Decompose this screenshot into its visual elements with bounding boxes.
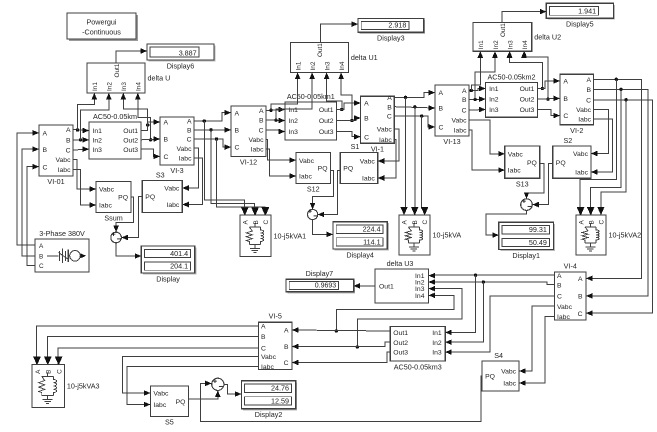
- svg-text:Out1: Out1: [317, 43, 324, 57]
- svg-text:In2: In2: [93, 137, 103, 144]
- svg-text:Iabc: Iabc: [578, 117, 591, 124]
- VI measurement block VI-4: [555, 262, 593, 322]
- svg-text:1.941: 1.941: [578, 7, 596, 16]
- svg-text:A: A: [261, 324, 266, 331]
- svg-text:VI-5: VI-5: [269, 312, 282, 321]
- svg-text:C: C: [284, 360, 289, 367]
- svg-text:Out2: Out2: [393, 340, 408, 347]
- svg-text:PQ: PQ: [118, 195, 128, 202]
- wire VI-12 C to AC50-0.05km1 In3: [266, 129, 285, 135]
- display block Display: [141, 246, 196, 283]
- svg-text:C: C: [56, 369, 63, 374]
- subsystem block delta U1: [290, 43, 377, 80]
- svg-text:10-j5kVA1: 10-j5kVA1: [274, 231, 307, 240]
- svg-text:PQ: PQ: [527, 160, 537, 167]
- svg-text:PQ: PQ: [343, 166, 353, 173]
- VI measurement block VI-01: [33, 125, 74, 186]
- wire node B to 10-j5kVA1 B: [211, 130, 258, 215]
- wire VI-13 C to AC50-0.05km2 In3: [469, 107, 486, 113]
- wire delta U3 In2 arrowhead: [429, 279, 436, 285]
- svg-text:2.918: 2.918: [388, 21, 406, 30]
- wire S12 PQ to Sum3: [310, 171, 334, 210]
- svg-text:C: C: [422, 220, 429, 225]
- svg-text:Iabc: Iabc: [575, 170, 588, 177]
- svg-text:Out2: Out2: [319, 118, 334, 125]
- wire S1 PQ to Sum3: [318, 171, 341, 218]
- svg-text:Display7: Display7: [306, 269, 334, 278]
- svg-text:In2: In2: [107, 82, 114, 91]
- wire node A to 10-j5kVA2 A: [577, 79, 617, 215]
- wire VI-12 A to AC50-0.05km1 In1: [266, 107, 285, 113]
- svg-text:Out1: Out1: [393, 330, 408, 337]
- svg-text:204.1: 204.1: [170, 262, 188, 271]
- svg-text:In1: In1: [289, 107, 299, 114]
- wire VI-5 C to 10-j5kVA3 C: [55, 348, 259, 364]
- svg-text:VI-4: VI-4: [564, 262, 577, 271]
- wire VI-01 B to AC50-0.05km In2: [73, 137, 89, 143]
- wire node B to 10-j5kVA B: [411, 107, 418, 215]
- svg-text:AC50-0.05km: AC50-0.05km: [93, 112, 137, 121]
- svg-text:10-j5kVA2: 10-j5kVA2: [609, 231, 642, 240]
- svg-text:Display: Display: [156, 274, 180, 283]
- wire AC50-0.05km2 Out1 to VI-2 A: [537, 78, 560, 88]
- svg-text:A: A: [563, 79, 568, 86]
- svg-text:Out3: Out3: [319, 129, 334, 136]
- svg-text:3-Phase 380V: 3-Phase 380V: [39, 229, 85, 238]
- wire VI-5 B to 10-j5kVA3 B: [44, 337, 259, 365]
- svg-text:In4: In4: [136, 82, 143, 91]
- wire Ssum PQ to Sum1: [113, 197, 133, 232]
- display block Display5: [546, 3, 615, 28]
- svg-text:B: B: [588, 220, 595, 224]
- svg-text:Vabc: Vabc: [99, 187, 115, 194]
- svg-text:A: A: [387, 95, 392, 102]
- svg-text:Iabc: Iabc: [251, 147, 264, 154]
- wire node junction to delta U In3: [121, 93, 150, 127]
- svg-text:C: C: [557, 294, 562, 301]
- svg-text:−: −: [527, 202, 532, 211]
- svg-text:Iabc: Iabc: [557, 314, 570, 321]
- svg-text:C: C: [563, 113, 568, 120]
- svg-text:Iabc: Iabc: [261, 364, 274, 371]
- svg-text:In3: In3: [508, 40, 515, 49]
- svg-text:Iabc: Iabc: [58, 167, 71, 174]
- svg-text:C: C: [598, 220, 605, 225]
- svg-text:A: A: [462, 88, 467, 95]
- wire node junction to delta U1 In3: [324, 73, 344, 112]
- svg-text:A: A: [578, 276, 583, 283]
- transmission line block AC50-0.05km1: [279, 92, 337, 140]
- svg-text:S3: S3: [156, 170, 165, 179]
- svg-text:S2: S2: [564, 136, 573, 145]
- svg-text:B: B: [259, 118, 264, 125]
- svg-text:401.4: 401.4: [170, 249, 188, 258]
- svg-text:B: B: [187, 128, 192, 135]
- wire VI-5 Vabc to S5 Vabc: [123, 357, 259, 396]
- svg-text:Vabc: Vabc: [501, 369, 517, 376]
- wire source C to VI-01 C: [27, 164, 39, 266]
- svg-text:Iabc: Iabc: [179, 156, 192, 163]
- wire VI-12 Iabc to S12 Iabc: [266, 149, 296, 179]
- svg-text:B: B: [164, 137, 169, 144]
- svg-text:VI-13: VI-13: [443, 137, 460, 146]
- wire delta U3 In1 node to VI-4 A: [434, 274, 555, 277]
- svg-text:Vabc: Vabc: [56, 157, 72, 164]
- svg-text:224.4: 224.4: [363, 225, 381, 234]
- three-phase RL load block 10-j5kVA: [399, 207, 461, 255]
- display block Display7: [286, 269, 360, 293]
- svg-text:Vabc: Vabc: [153, 391, 169, 398]
- svg-text:VI-12: VI-12: [240, 158, 257, 167]
- svg-text:Iabc: Iabc: [299, 174, 312, 181]
- svg-text:PQ: PQ: [556, 160, 566, 167]
- svg-text:Display6: Display6: [167, 61, 195, 70]
- wire S3 PQ to Sum1: [121, 197, 142, 241]
- wire node C to 10-j5kVA2 C: [597, 100, 626, 215]
- wire AC50-0.05km1 Out2 to VI-1 B: [337, 115, 361, 121]
- svg-text:B: B: [587, 87, 592, 94]
- wire VI-4 Iabc to S4 Iabc: [519, 317, 554, 386]
- wire VI-2 B to VI-4 B: [586, 88, 648, 299]
- display block Display3: [358, 19, 425, 43]
- wire Sum2 to Display2: [224, 384, 242, 397]
- three-phase RL load block 10-j5kVA2: [576, 207, 641, 255]
- svg-text:50.49: 50.49: [529, 238, 547, 247]
- wire VI-5 A to 10-j5kVA3 A: [33, 326, 258, 364]
- svg-text:PQ: PQ: [145, 194, 155, 201]
- power measurement block S13: [498, 146, 540, 189]
- svg-text:S12: S12: [307, 185, 320, 194]
- wire VI-12 B to AC50-0.05km1 In2: [266, 118, 285, 124]
- svg-text:C: C: [462, 108, 467, 115]
- sum block Sum1: [111, 230, 122, 244]
- sum block Sum3: [308, 207, 319, 221]
- power measurement block S5: [144, 386, 189, 427]
- wire AC50-0.05km3 Out2 to VI-5 B: [292, 342, 390, 349]
- svg-text:VI-3: VI-3: [170, 166, 183, 175]
- svg-text:Vabc: Vabc: [557, 304, 573, 311]
- svg-text:B: B: [66, 138, 71, 145]
- wire node junction to delta U In2: [81, 93, 112, 140]
- svg-text:Vabc: Vabc: [377, 126, 393, 133]
- svg-text:Out3: Out3: [123, 147, 138, 154]
- svg-text:PQ: PQ: [485, 374, 495, 381]
- svg-text:In3: In3: [432, 350, 442, 357]
- svg-text:Out1: Out1: [500, 23, 507, 37]
- svg-text:In3: In3: [93, 147, 103, 154]
- display block Display4: [333, 222, 389, 260]
- svg-text:Display5: Display5: [566, 20, 594, 29]
- transmission line block AC50-0.05km2: [479, 72, 537, 117]
- wire VI-01 A to AC50-0.05km In1: [73, 128, 89, 134]
- wire node junction to delta U In4: [135, 93, 152, 142]
- svg-text:-Continuous: -Continuous: [82, 28, 121, 37]
- wire VI-3 B to VI-12 B: [194, 127, 231, 133]
- wire AC50-0.05km Out3 to VI-3 C: [141, 149, 160, 159]
- wire AC50-0.05km Out1 to VI-3 A: [141, 119, 160, 130]
- svg-text:Vabc: Vabc: [576, 107, 592, 114]
- svg-text:A: A: [243, 220, 250, 225]
- svg-text:B: B: [235, 127, 240, 134]
- svg-text:C: C: [261, 346, 266, 353]
- svg-text:B: B: [284, 344, 289, 351]
- svg-text:In3: In3: [324, 61, 331, 70]
- svg-text:B: B: [563, 96, 568, 103]
- wire node A to 10-j5kVA A: [400, 97, 407, 215]
- display block Display1: [499, 222, 555, 259]
- svg-text:A: A: [164, 120, 169, 127]
- three-phase RL load block 10-j5kVA3: [32, 356, 100, 407]
- svg-text:C: C: [259, 127, 264, 134]
- svg-text:AC50-0.05km3: AC50-0.05km3: [394, 362, 442, 371]
- subsystem block delta U: [87, 63, 170, 100]
- svg-text:delta U: delta U: [148, 74, 171, 83]
- svg-text:delta U2: delta U2: [534, 32, 561, 41]
- wire VI-1 Iabc to S1 Iabc: [378, 139, 396, 181]
- svg-text:B: B: [46, 370, 53, 374]
- wire delta U3 Out1 to Display7: [354, 283, 375, 289]
- svg-text:VI-01: VI-01: [47, 177, 64, 186]
- VI measurement block VI-2: [553, 74, 593, 135]
- wire Sum4 to Display1: [486, 210, 527, 238]
- svg-text:In1: In1: [489, 86, 499, 93]
- wire VI-01 C to AC50-0.05km In3: [73, 146, 89, 152]
- svg-text:Iabc: Iabc: [99, 203, 112, 210]
- wire node A to 10-j5kVA1 A: [204, 121, 248, 215]
- svg-text:A: A: [43, 130, 48, 137]
- svg-text:Out3: Out3: [520, 107, 535, 114]
- svg-text:99.31: 99.31: [529, 225, 547, 234]
- svg-text:C: C: [235, 145, 240, 152]
- VI measurement block VI-1: [354, 95, 394, 153]
- powergui block: [67, 13, 138, 41]
- svg-text:10-j5kVA3: 10-j5kVA3: [67, 382, 100, 391]
- sum block Sum2: [212, 377, 224, 391]
- svg-text:delta U1: delta U1: [351, 53, 378, 62]
- svg-text:B: B: [253, 220, 260, 224]
- svg-text:In2: In2: [310, 61, 317, 70]
- svg-text:C: C: [39, 263, 44, 270]
- power measurement block S1: [340, 142, 384, 183]
- svg-text:24.76: 24.76: [271, 384, 289, 393]
- svg-text:A: A: [557, 273, 562, 280]
- svg-text:In3: In3: [489, 107, 499, 114]
- svg-text:Vabc: Vabc: [249, 137, 265, 144]
- svg-text:C: C: [586, 97, 591, 104]
- svg-text:In1: In1: [93, 128, 103, 135]
- wire node junction to delta U2 In1: [471, 52, 483, 91]
- wire node C to 10-j5kVA C: [421, 116, 428, 215]
- svg-text:−: −: [117, 235, 122, 244]
- svg-text:B: B: [364, 116, 369, 123]
- wire VI-2 Vabc to S2 Vabc: [591, 110, 608, 157]
- svg-text:A: A: [578, 220, 585, 225]
- svg-text:Out1: Out1: [319, 107, 334, 114]
- wire VI-3 C to VI-12 C: [194, 137, 231, 150]
- wire VI-01 Vabc to Ssum Vabc: [73, 160, 96, 192]
- svg-text:AC50-0.05km1: AC50-0.05km1: [287, 92, 335, 101]
- wire node junction to delta U1 In1: [271, 73, 301, 111]
- wire node C to 10-j5kVA1 C: [217, 139, 269, 215]
- wire VI-4 C to AC50-0.05km3 In3: [445, 296, 554, 355]
- svg-text:C: C: [66, 148, 71, 155]
- wire AC50-0.05km2 Out2 to VI-2 B: [537, 96, 560, 102]
- wire AC50-0.05km1 Out3 to VI-1 C: [337, 132, 361, 140]
- svg-text:In2: In2: [289, 118, 299, 125]
- wire VI-1 B to VI-13 B: [394, 105, 435, 111]
- svg-text:B: B: [261, 334, 266, 341]
- wire delta U3 In2 node to VI-4 B: [429, 280, 555, 284]
- power measurement block Ssum: [90, 182, 132, 223]
- wire AC50-0.05km Out2 to VI-3 B: [141, 136, 160, 142]
- svg-text:Vabc: Vabc: [177, 146, 193, 153]
- svg-text:Out2: Out2: [520, 97, 535, 104]
- VI measurement block VI-5: [259, 312, 299, 371]
- svg-text:A: A: [35, 369, 42, 374]
- wire node junction to delta U2 In2: [475, 52, 498, 100]
- svg-text:12.59: 12.59: [271, 396, 289, 405]
- svg-text:B: B: [578, 294, 583, 301]
- svg-text:Out3: Out3: [393, 350, 408, 357]
- svg-text:C: C: [164, 154, 169, 161]
- svg-text:AC50-0.05km2: AC50-0.05km2: [488, 72, 536, 81]
- svg-text:A: A: [587, 77, 592, 84]
- three-phase source 3-Phase 380V: [35, 229, 89, 272]
- three-phase RL load block 10-j5kVA1: [240, 207, 306, 257]
- svg-text:In3: In3: [121, 82, 128, 91]
- svg-text:Display1: Display1: [512, 251, 540, 260]
- svg-text:A: A: [66, 127, 71, 134]
- svg-text:0.9693: 0.9693: [315, 283, 337, 290]
- wire node junction to delta U3 In3: [356, 286, 462, 349]
- svg-text:C: C: [387, 114, 392, 121]
- svg-text:In4: In4: [415, 293, 425, 300]
- wire VI-1 C to VI-13 C: [394, 114, 435, 129]
- wire node junction to delta U1 In2: [276, 73, 315, 121]
- svg-text:C: C: [263, 220, 270, 225]
- wire Sum3 to Display4: [313, 220, 333, 238]
- wire VI-5 Iabc to S5 Iabc: [127, 367, 259, 408]
- svg-text:B: B: [43, 147, 48, 154]
- wire source A to VI-01 A: [17, 130, 39, 245]
- svg-text:In2: In2: [432, 340, 442, 347]
- subsystem block delta U2: [473, 23, 561, 58]
- svg-text:In1: In1: [295, 61, 302, 70]
- svg-text:A: A: [187, 119, 192, 126]
- svg-text:C: C: [439, 125, 444, 132]
- svg-text:VI-2: VI-2: [570, 126, 583, 135]
- svg-text:114.1: 114.1: [363, 237, 380, 246]
- wire AC50-0.05km3 Out3 to VI-5 C: [292, 352, 390, 365]
- wire S5 PQ to Sum2: [188, 390, 220, 399]
- svg-text:Out1: Out1: [520, 86, 535, 93]
- wire S2 PQ to Sum4: [532, 164, 553, 208]
- svg-text:In3: In3: [289, 129, 299, 136]
- svg-text:Out1: Out1: [379, 284, 394, 291]
- svg-text:Vabc: Vabc: [508, 151, 524, 158]
- wire node junction to delta U In1: [78, 93, 98, 130]
- svg-text:A: A: [259, 108, 264, 115]
- wire VI-2 Iabc to S2 Iabc: [591, 119, 613, 175]
- sum block Sum4: [521, 197, 533, 211]
- svg-text:B: B: [412, 220, 419, 224]
- transmission line block AC50-0.05km: [83, 112, 142, 159]
- svg-text:+: +: [213, 377, 218, 386]
- wire node junction to AC50-0.05km3 In1: [445, 275, 475, 335]
- wire node junction to delta U2 In4: [521, 52, 550, 101]
- svg-text:Out2: Out2: [123, 137, 138, 144]
- svg-text:S4: S4: [494, 351, 503, 360]
- svg-text:S1: S1: [351, 142, 360, 151]
- svg-text:Vabc: Vabc: [573, 151, 589, 158]
- wire VI-3 Iabc to S3 Iabc: [182, 158, 202, 207]
- svg-text:S13: S13: [516, 180, 529, 189]
- svg-text:Display3: Display3: [377, 34, 405, 43]
- svg-text:B: B: [387, 104, 392, 111]
- svg-text:Vabc: Vabc: [452, 117, 468, 124]
- svg-text:A: A: [439, 90, 444, 97]
- svg-text:Iabc: Iabc: [153, 402, 166, 409]
- svg-text:In2: In2: [489, 97, 499, 104]
- wire delta U1 Out1 to Display3: [321, 21, 359, 42]
- VI measurement block VI-3: [154, 117, 195, 175]
- display block Display6: [147, 44, 216, 70]
- svg-text:−: −: [313, 212, 318, 221]
- svg-text:B: B: [557, 282, 562, 289]
- wire VI-2 C to VI-4 C: [586, 98, 653, 316]
- svg-text:B: B: [462, 97, 467, 104]
- svg-text:In4: In4: [339, 61, 346, 70]
- svg-text:Iabc: Iabc: [503, 381, 516, 388]
- svg-text:In2: In2: [493, 40, 500, 49]
- power measurement block S12: [290, 152, 331, 193]
- svg-text:In4: In4: [522, 40, 529, 49]
- VI measurement block VI-13: [429, 85, 470, 146]
- svg-text:Vabc: Vabc: [164, 186, 180, 193]
- svg-text:Vabc: Vabc: [299, 158, 315, 165]
- wire VI-13 Iabc to S13 Iabc: [469, 130, 505, 173]
- wire VI-1 A to VI-13 A: [394, 90, 435, 99]
- subsystem block delta U3: [375, 259, 435, 303]
- svg-text:Iabc: Iabc: [379, 137, 392, 144]
- svg-text:B: B: [439, 106, 444, 113]
- svg-text:10-j5kVA: 10-j5kVA: [433, 231, 462, 240]
- VI measurement block VI-12: [225, 106, 267, 167]
- wire VI-01 Iabc to Ssum Iabc: [73, 170, 96, 208]
- transmission line block AC50-0.05km3: [390, 327, 451, 372]
- wire delta U3 In1 arrowhead: [429, 273, 436, 279]
- svg-text:−: −: [218, 382, 223, 391]
- power measurement block S2: [553, 136, 598, 179]
- svg-text:A: A: [235, 110, 240, 117]
- svg-text:C: C: [43, 164, 48, 171]
- svg-text:C: C: [364, 134, 369, 141]
- svg-text:Iabc: Iabc: [454, 128, 467, 135]
- power measurement block S3: [142, 170, 189, 212]
- svg-text:Display2: Display2: [255, 410, 283, 419]
- svg-text:In1: In1: [478, 40, 485, 49]
- wire delta U2 Out1 to Display5: [502, 9, 546, 23]
- wire VI-13 Vabc to S13 Vabc: [469, 120, 505, 157]
- wire AC50-0.05km2 Out3 to VI-2 C: [537, 110, 560, 119]
- svg-text:Iabc: Iabc: [362, 176, 375, 183]
- wire S13 PQ to Sum4: [524, 164, 544, 199]
- svg-text:Iabc: Iabc: [508, 168, 521, 175]
- svg-text:A: A: [402, 220, 409, 225]
- wire VI-1 Vabc to S1 Vabc: [378, 129, 399, 164]
- wire VI-3 Vabc to S3 Vabc: [182, 148, 198, 191]
- svg-text:Out1: Out1: [114, 63, 121, 77]
